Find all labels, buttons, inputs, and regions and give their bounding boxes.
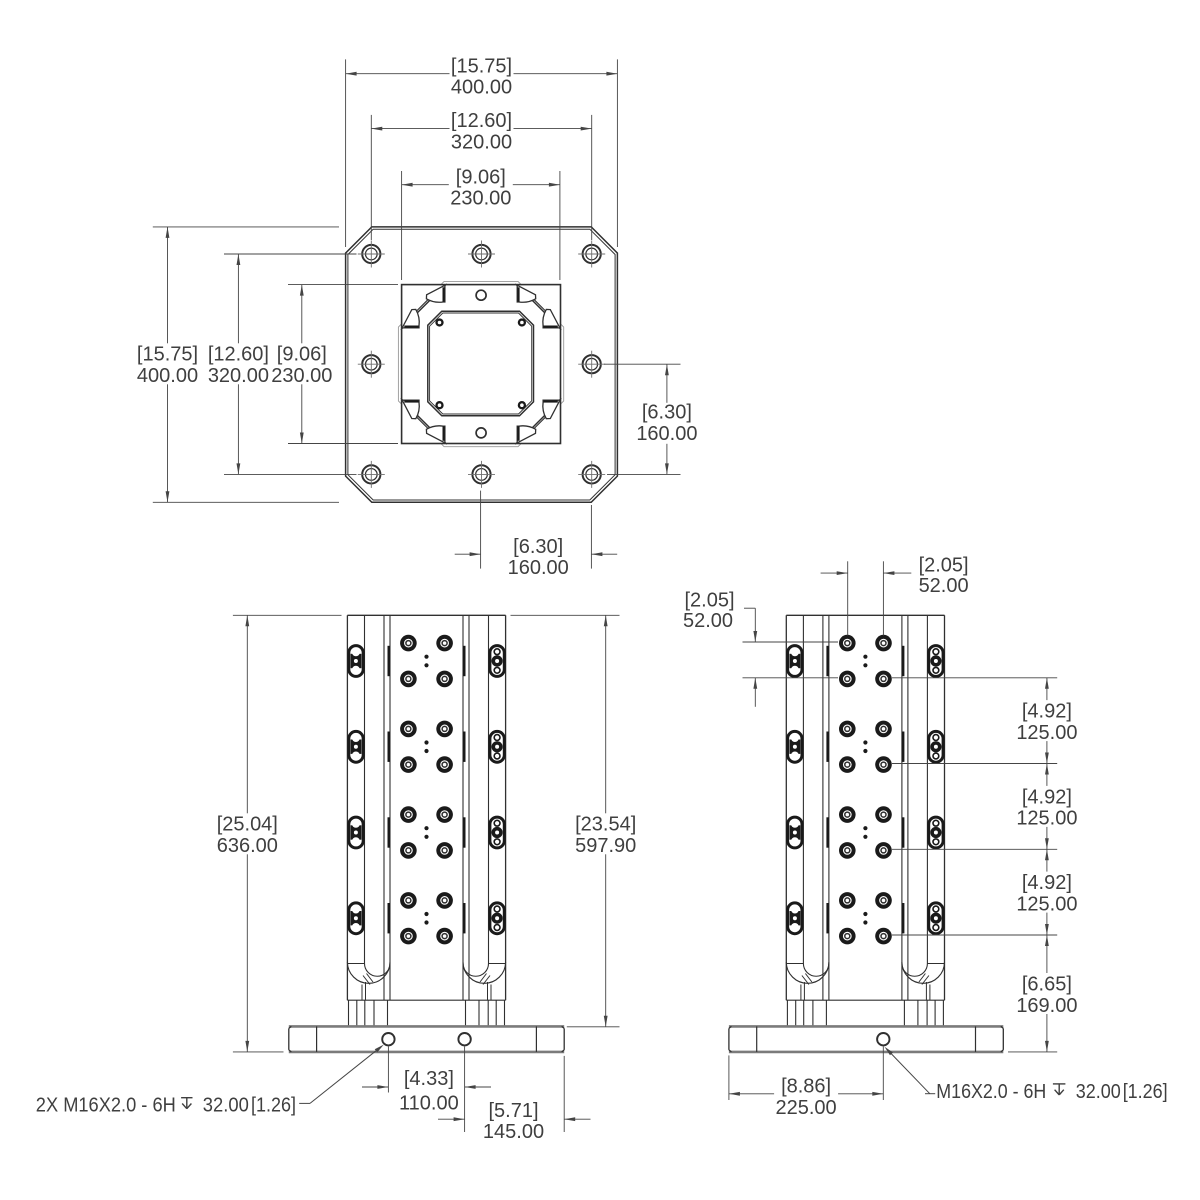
svg-text:[15.75]: [15.75] [451,55,512,77]
svg-text:[15.75]: [15.75] [137,344,198,366]
svg-text:[9.06]: [9.06] [456,166,506,188]
svg-text:125.00: 125.00 [1016,893,1077,915]
svg-text:52.00: 52.00 [683,610,733,632]
svg-text:125.00: 125.00 [1016,808,1077,830]
svg-text:52.00: 52.00 [919,575,969,597]
svg-text:320.00: 320.00 [208,365,269,387]
svg-text:[6.30]: [6.30] [513,536,563,558]
svg-text:[2.05]: [2.05] [684,589,734,611]
svg-text:400.00: 400.00 [137,365,198,387]
svg-text:M16X2.0 - 6H: M16X2.0 - 6H [936,1081,1046,1103]
svg-text:[4.92]: [4.92] [1022,701,1072,723]
svg-text:[1.26]: [1.26] [1123,1081,1168,1103]
svg-text:[1.26]: [1.26] [251,1095,296,1117]
svg-text:[12.60]: [12.60] [451,110,512,132]
svg-text:[12.60]: [12.60] [208,344,269,366]
svg-text:[5.71]: [5.71] [488,1100,538,1122]
svg-text:[2.05]: [2.05] [919,554,969,576]
svg-text:[4.92]: [4.92] [1022,872,1072,894]
svg-text:[4.92]: [4.92] [1022,786,1072,808]
svg-text:145.00: 145.00 [483,1121,544,1143]
svg-text:[6.30]: [6.30] [642,402,692,424]
svg-text:125.00: 125.00 [1016,722,1077,744]
svg-text:32.00: 32.00 [1076,1081,1121,1103]
svg-text:[25.04]: [25.04] [217,814,278,836]
svg-text:110.00: 110.00 [399,1093,459,1115]
svg-text:2X M16X2.0 - 6H: 2X M16X2.0 - 6H [36,1095,176,1117]
svg-text:32.00: 32.00 [203,1095,249,1117]
svg-text:636.00: 636.00 [217,835,278,857]
svg-text:597.90: 597.90 [575,835,636,857]
svg-text:169.00: 169.00 [1016,995,1077,1017]
svg-text:320.00: 320.00 [451,132,512,154]
svg-text:[6.65]: [6.65] [1022,973,1072,995]
svg-text:[23.54]: [23.54] [575,814,636,836]
svg-text:[9.06]: [9.06] [277,344,327,366]
svg-text:160.00: 160.00 [636,423,697,445]
svg-text:230.00: 230.00 [271,365,332,387]
svg-text:400.00: 400.00 [451,77,512,99]
svg-text:230.00: 230.00 [450,188,511,210]
svg-text:[4.33]: [4.33] [404,1068,454,1090]
svg-text:225.00: 225.00 [776,1097,837,1119]
svg-text:160.00: 160.00 [508,557,569,579]
svg-text:[8.86]: [8.86] [781,1075,831,1097]
